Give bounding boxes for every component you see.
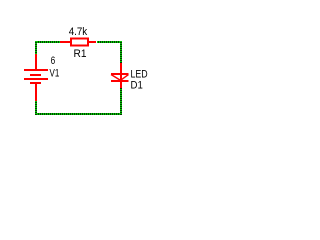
svg-text:6: 6 [51, 55, 56, 67]
svg-text:R1: R1 [74, 48, 87, 60]
svg-text:V1: V1 [50, 68, 60, 80]
svg-text:4.7k: 4.7k [69, 26, 88, 38]
svg-text:D1: D1 [131, 80, 143, 92]
